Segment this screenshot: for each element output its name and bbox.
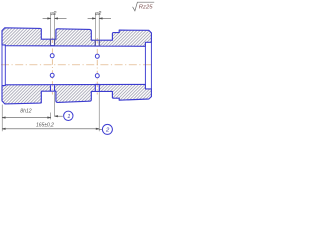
svg-text:1: 1 [67,114,70,120]
svg-text:⌀2: ⌀2 [50,11,56,17]
svg-text:8h12: 8h12 [20,108,31,114]
svg-text:⌀2: ⌀2 [95,11,101,17]
svg-text:2: 2 [105,128,110,134]
svg-text:165±0,2: 165±0,2 [36,123,54,129]
svg-text:Rz25: Rz25 [139,4,153,10]
